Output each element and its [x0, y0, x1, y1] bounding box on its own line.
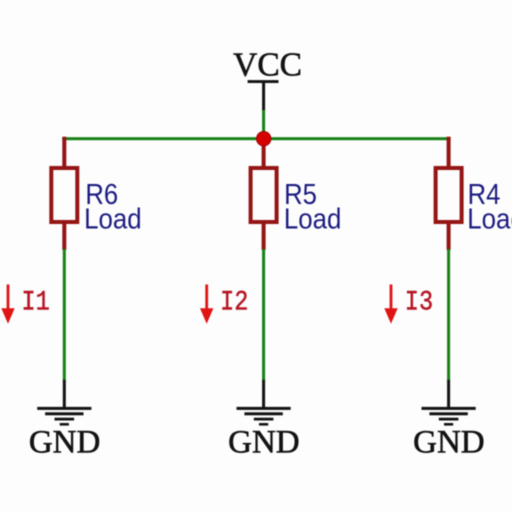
node junction dot [257, 132, 271, 146]
resistor R4 [436, 168, 462, 222]
label R4 [467, 178, 512, 235]
wire left top pin [62, 137, 66, 168]
svg-text:Load: Load [467, 202, 512, 234]
svg-text:GND: GND [29, 425, 101, 461]
wire right top pin [447, 137, 451, 168]
wire horizontal bus [62, 137, 450, 140]
resistor R5 [251, 168, 277, 222]
wire left to ground [63, 249, 66, 381]
ground GND left [29, 380, 101, 461]
wire left bottom pin [62, 222, 66, 250]
label R6 [84, 178, 142, 235]
resistor R6 [51, 168, 77, 222]
wire middle bottom pin [262, 222, 266, 250]
wire VCC stick to junction [262, 110, 265, 139]
svg-text:I3: I3 [405, 287, 433, 318]
wire middle top pin [262, 139, 266, 168]
svg-text:I1: I1 [22, 287, 50, 318]
svg-text:VCC: VCC [233, 46, 302, 83]
svg-text:GND: GND [228, 425, 300, 461]
svg-text:GND: GND [413, 425, 485, 461]
wire right bottom pin [447, 222, 451, 250]
current arrow I3 [384, 285, 433, 324]
svg-text:Load: Load [284, 202, 342, 234]
wire middle to ground [262, 249, 265, 381]
svg-text:Load: Load [84, 202, 142, 234]
current arrow I1 [1, 285, 50, 324]
label R5 [284, 178, 342, 235]
ground GND right [413, 380, 485, 461]
ground GND middle [228, 380, 300, 461]
wire right to ground [447, 249, 450, 381]
power symbol VCC [233, 46, 302, 110]
svg-text:I2: I2 [220, 287, 248, 318]
current arrow I2 [200, 285, 248, 324]
